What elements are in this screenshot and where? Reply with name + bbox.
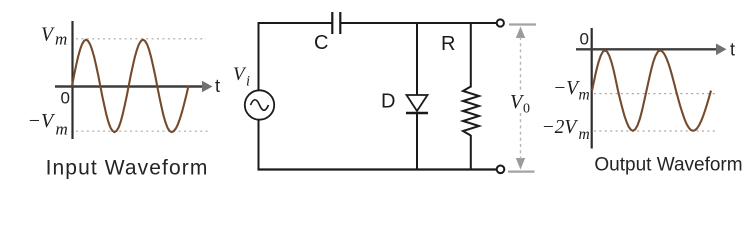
svg-text:R: R xyxy=(441,33,455,55)
wire top left vertical xyxy=(258,22,260,91)
svg-text:0: 0 xyxy=(523,102,530,117)
svg-text:i: i xyxy=(246,74,250,90)
label V0 xyxy=(510,91,530,117)
input t label xyxy=(215,76,220,96)
output label -2Vm xyxy=(542,117,590,143)
svg-text:m: m xyxy=(579,126,590,143)
voltage source Vi xyxy=(245,90,274,119)
V0 dimension top tick xyxy=(509,23,536,25)
input label -Vm xyxy=(28,110,68,139)
wire top horizontal left of C xyxy=(258,22,333,24)
svg-text:0: 0 xyxy=(61,89,70,108)
wire bottom horizontal xyxy=(258,168,497,170)
wire bottom left vertical xyxy=(258,120,260,171)
svg-text:Output Waveform: Output Waveform xyxy=(594,155,742,176)
label Vi xyxy=(233,64,250,90)
svg-text:−V: −V xyxy=(553,78,580,99)
output terminal top xyxy=(497,19,504,26)
output label -Vm xyxy=(553,78,590,104)
svg-text:m: m xyxy=(579,87,590,104)
svg-text:C: C xyxy=(314,32,328,54)
output sine wave xyxy=(592,50,711,130)
V0 dimension dashed line xyxy=(520,37,522,159)
capacitor C xyxy=(332,12,340,34)
input caption xyxy=(46,157,209,180)
output waveform y-axis xyxy=(591,28,593,149)
svg-text:−2V: −2V xyxy=(542,117,579,138)
output caption xyxy=(594,155,742,176)
input label Vm xyxy=(41,24,67,48)
svg-text:−V: −V xyxy=(28,110,56,132)
resistor R xyxy=(463,87,479,136)
wire diode branch lower xyxy=(416,113,418,170)
diode D xyxy=(406,95,428,113)
input -Vm dashed gridline xyxy=(76,130,208,132)
label D xyxy=(381,91,395,113)
output waveform t-axis xyxy=(576,44,727,56)
output -Vm dashed gridline xyxy=(594,93,717,95)
V0 dimension arrow down xyxy=(516,158,525,170)
svg-text:D: D xyxy=(381,91,395,113)
input Vm dashed gridline xyxy=(76,38,206,40)
svg-text:m: m xyxy=(55,30,67,49)
output -2Vm dashed gridline xyxy=(594,130,716,132)
output origin label 0 xyxy=(580,29,589,48)
wire top horizontal right of C xyxy=(341,22,496,24)
output terminal bottom xyxy=(497,166,505,174)
label R xyxy=(441,33,455,55)
V0 dimension bottom tick xyxy=(508,171,535,173)
svg-text:m: m xyxy=(56,120,68,139)
svg-text:Input Waveform: Input Waveform xyxy=(46,157,209,180)
svg-text:t: t xyxy=(215,76,220,96)
wire resistor branch lower xyxy=(470,135,472,170)
svg-text:V: V xyxy=(41,24,55,45)
V0 dimension arrow up xyxy=(516,27,525,39)
output t label xyxy=(730,40,735,60)
input sine wave xyxy=(72,40,189,132)
input origin label 0 xyxy=(61,89,70,108)
label C xyxy=(314,32,328,54)
input waveform y-axis xyxy=(71,21,73,139)
wire diode branch upper xyxy=(416,23,418,95)
svg-text:0: 0 xyxy=(580,29,589,48)
wire resistor branch upper xyxy=(470,23,472,88)
input waveform t-axis xyxy=(55,81,213,93)
svg-text:t: t xyxy=(730,40,735,60)
